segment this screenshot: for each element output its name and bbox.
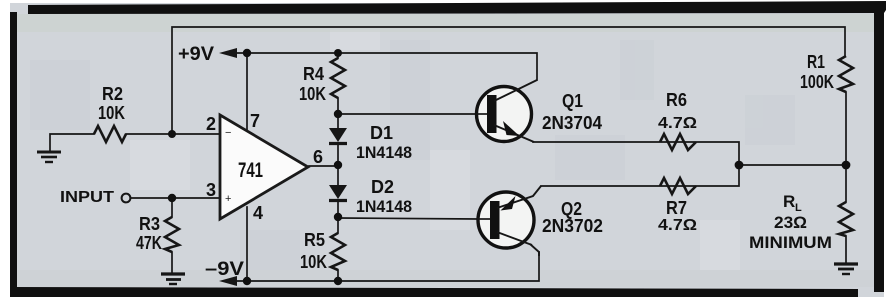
- junction: inverting input node: [168, 130, 176, 138]
- ground (R3): [161, 274, 185, 284]
- junction: +9V / R4 top: [334, 49, 342, 57]
- svg-text:10K: 10K: [299, 84, 326, 104]
- wire R5 bottom: [337, 270, 339, 281]
- svg-text:R: R: [783, 192, 795, 211]
- svg-text:4.7Ω: 4.7Ω: [658, 217, 697, 234]
- wire R3 top: [171, 198, 173, 217]
- resistor R1 100K vertical: [839, 56, 853, 92]
- faint scan mottling patches: [30, 40, 795, 270]
- wire D2 cathode: [337, 201, 339, 233]
- svg-text:47K: 47K: [136, 233, 162, 253]
- svg-text:1N4148: 1N4148: [356, 197, 412, 216]
- wire output node to RL: [739, 164, 846, 166]
- wire input to pin3: [131, 197, 220, 199]
- junction: -9V / R5 bottom: [334, 277, 342, 285]
- svg-text:+9V: +9V: [178, 44, 214, 65]
- junction: R6/R7 output node: [735, 161, 744, 170]
- wire opamp output: [309, 165, 338, 167]
- wire R4 top: [337, 53, 339, 58]
- junction: R1 / RL node: [842, 161, 851, 170]
- svg-text:MINIMUM: MINIMUM: [749, 233, 832, 252]
- resistor R4 10K vertical: [331, 58, 345, 98]
- svg-text:R6: R6: [666, 90, 687, 110]
- svg-text:R3: R3: [139, 214, 160, 234]
- svg-text:D2: D2: [371, 177, 394, 197]
- svg-text:741: 741: [238, 159, 263, 182]
- op-amp U1 741: [220, 115, 308, 219]
- resistor R3 47K vertical: [165, 217, 179, 252]
- wire pin7 to +9V: [246, 53, 248, 131]
- wire RL bottom to ground: [845, 236, 847, 263]
- ground (left, R2): [37, 152, 61, 162]
- transistor Q2 2N3702: [477, 186, 541, 248]
- wire R3 bottom to ground: [171, 252, 173, 273]
- resistor R7 4.7 horizontal: [660, 178, 696, 194]
- svg-text:+: +: [225, 193, 231, 205]
- wire -9V rail: [237, 252, 539, 281]
- resistor RL vertical: [839, 202, 853, 236]
- junction: op-amp output node: [334, 161, 342, 169]
- svg-text:23Ω: 23Ω: [774, 213, 807, 232]
- svg-text:2N3702: 2N3702: [542, 216, 603, 236]
- svg-text:1N4148: 1N4148: [356, 143, 412, 162]
- junction: D2 / R5 / Q2 base: [334, 213, 342, 221]
- svg-text:–9V: –9V: [205, 259, 244, 280]
- wire pin4 to -9V rail: [246, 207, 248, 281]
- junction: +9V / pin 7: [243, 49, 251, 57]
- wire ground to R2: [50, 134, 94, 152]
- border frame: top bar: [28, 1, 886, 14]
- resistor R6 4.7 horizontal: [660, 134, 696, 150]
- junction: input / R3 top: [168, 194, 176, 202]
- svg-text:6: 6: [313, 147, 323, 167]
- svg-text:4.7Ω: 4.7Ω: [658, 115, 697, 132]
- wire D1 anode: [337, 114, 339, 128]
- svg-text:D1: D1: [370, 123, 393, 143]
- wire R4 bottom: [337, 98, 339, 114]
- svg-text:INPUT: INPUT: [60, 189, 114, 206]
- border frame: left bar: [10, 12, 17, 294]
- border frame: right bar: [874, 3, 884, 292]
- svg-text:Q1: Q1: [562, 91, 583, 111]
- wire +9V rail: [237, 53, 537, 80]
- svg-text:R5: R5: [304, 230, 325, 250]
- wire Q2 collector corner: [530, 244, 539, 256]
- svg-text:7: 7: [250, 111, 260, 131]
- wire D1 cathode to node: [337, 145, 339, 185]
- wire R2 to pin2: [126, 133, 220, 135]
- svg-text:10K: 10K: [300, 252, 327, 272]
- diode D1 1N4148: [329, 128, 347, 144]
- +9V arrow: [219, 48, 237, 58]
- svg-text:R2: R2: [102, 84, 123, 104]
- wire Q1 emitter to R6: [533, 142, 739, 165]
- diode D2 1N4148: [329, 185, 347, 201]
- svg-text:R1: R1: [807, 52, 825, 72]
- subtle tint band top: [17, 14, 874, 32]
- svg-text:4: 4: [253, 203, 263, 223]
- svg-text:2: 2: [206, 114, 216, 134]
- resistor R5 10K vertical: [331, 233, 345, 270]
- wire feedback loop: node to top rail to R1: [172, 27, 845, 134]
- border frame: bottom bar: [10, 287, 858, 297]
- svg-text:100K: 100K: [800, 72, 834, 92]
- svg-text:−: −: [225, 127, 231, 139]
- wire Q2 base: [338, 218, 477, 219]
- wire R1 bottom to output node: [845, 92, 847, 202]
- input terminal circle: [122, 194, 131, 203]
- transistor Q1 2N3704: [476, 80, 537, 142]
- subtle tint band bottom: [17, 270, 874, 287]
- junction: -9V / pin 4: [243, 277, 251, 285]
- svg-text:R4: R4: [303, 64, 324, 84]
- svg-text:2N3704: 2N3704: [542, 113, 602, 133]
- wire Q1 base: [338, 113, 476, 115]
- ground (RL): [834, 264, 858, 274]
- -9V arrow: [219, 276, 237, 286]
- svg-text:R7: R7: [666, 198, 687, 218]
- junction: R4 / D1 / Q1 base: [334, 110, 342, 118]
- svg-text:10K: 10K: [98, 103, 125, 123]
- svg-text:3: 3: [206, 180, 216, 200]
- resistor R2 10K horizontal: [94, 126, 126, 142]
- wire Q2 emitter to R7: [541, 165, 739, 186]
